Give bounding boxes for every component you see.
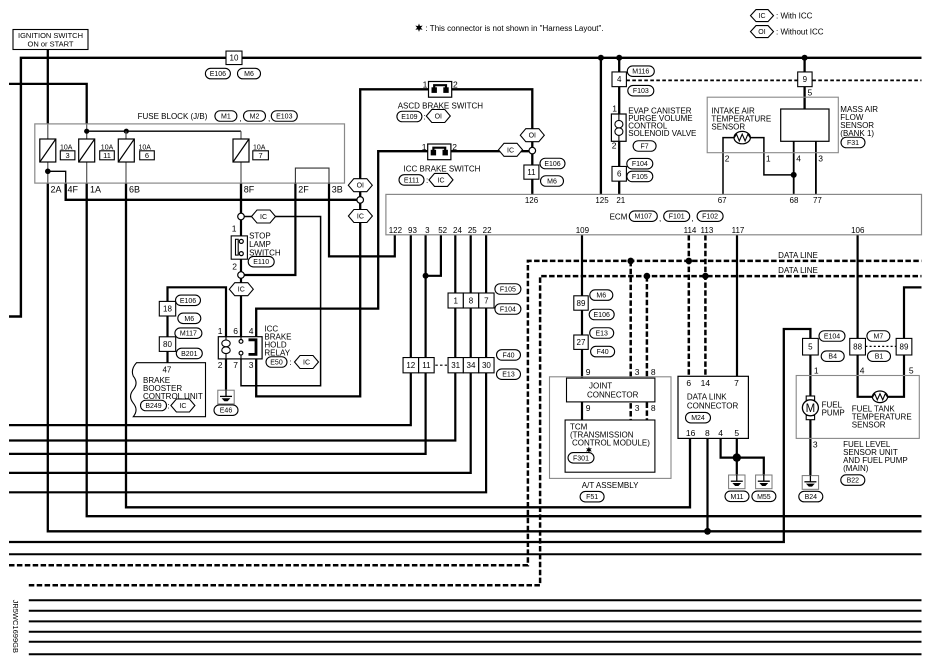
svg-text:6: 6 [233,326,238,336]
connector 9 [798,72,812,87]
fuel connector B22 [841,475,865,486]
wire fuel pump feed from left edge [9,329,810,542]
svg-text:24: 24 [453,226,462,235]
svg-text:OI: OI [435,114,442,121]
wire bottom line 4 [29,620,922,622]
svg-text:34: 34 [467,361,476,370]
svg-text:IC: IC [507,147,514,154]
svg-text:F40: F40 [597,349,609,356]
row labels F40 E13 [497,350,521,380]
svg-text:IC: IC [759,13,766,20]
svg-text:3: 3 [813,440,818,450]
svg-text:F51: F51 [586,494,598,501]
svg-text:F40: F40 [502,352,514,359]
svg-text:3: 3 [66,151,70,160]
ICC labels [399,173,453,186]
joint connector pin labels bottom [586,403,656,413]
svg-text:6: 6 [145,151,149,160]
data line 2 dashed [29,276,922,585]
fuel sensor unit box [796,376,919,439]
svg-text:A/T ASSEMBLY: A/T ASSEMBLY [582,481,639,490]
note star [415,24,603,34]
connector 6 labels [627,158,653,181]
fuel tank temp sensor name [852,405,912,430]
svg-text:SENSOR: SENSOR [852,421,886,430]
svg-text:6: 6 [686,378,691,388]
ASCD labels [397,110,450,123]
wire ECM 52 joins pin 3 wire [426,235,441,276]
svg-text:77: 77 [813,196,822,205]
fuse block 2F-3B link [295,168,329,183]
ECM box [386,194,922,234]
data line 1 dashed [9,261,922,565]
svg-text:,: , [268,114,270,123]
svg-text:IC: IC [357,214,364,221]
wire fuse 7 output 8F [240,183,242,214]
svg-text:E106: E106 [210,71,226,78]
svg-text:F7: F7 [641,144,649,151]
connector 4 [612,72,626,87]
wire ECM 93 to left edge [9,235,411,425]
svg-text:CONTROL MODULE): CONTROL MODULE) [572,439,650,448]
wire stop lamp switch pin 2 to junction [240,253,242,272]
svg-text:E104: E104 [824,334,840,341]
row labels F105 F104 [495,284,521,315]
svg-text:CONNECTOR: CONNECTOR [587,390,639,399]
svg-text:M55: M55 [757,494,771,501]
svg-text:106: 106 [851,226,865,235]
wire relay pin 2 to ground E46 [225,359,227,390]
wire fuse 3 output 2A [48,183,922,531]
svg-text:6B: 6B [129,184,140,194]
ECM name [610,211,724,223]
wire ICC brake switch pin 2 [451,150,529,152]
wire bottom line 5 [29,631,922,633]
svg-text::: : [424,113,426,122]
svg-text:F103: F103 [633,88,649,95]
dashed wire ECM 114 to DLC 6 [688,235,691,376]
svg-text:OI: OI [529,133,536,140]
svg-text::: : [426,176,428,185]
ground B24 [802,476,818,490]
TCM box [565,420,655,472]
svg-text:7: 7 [484,296,489,305]
fuel pump name [822,401,845,418]
svg-text:113: 113 [701,226,714,235]
svg-text:E106: E106 [594,312,610,319]
svg-text:M107: M107 [635,214,653,221]
svg-text:B24: B24 [805,494,818,501]
fuse block label [138,111,298,123]
svg-text:47: 47 [162,365,171,374]
svg-text:E106: E106 [180,298,196,305]
svg-text:18: 18 [163,305,172,314]
junction dot MAF pin4 [791,172,797,178]
DLC connector M24 [686,412,711,423]
IC hexagon stop lamp branch [252,210,276,223]
svg-text:: Without ICC: : Without ICC [776,28,824,37]
svg-text:1: 1 [422,142,427,152]
wire bottom line to right edge 1 [9,553,922,555]
A/T connector F51 [580,491,604,502]
wire ECM 109 to TCM pin 9 [581,235,583,420]
svg-text:5: 5 [909,365,914,375]
svg-text:: With ICC: : With ICC [776,12,813,21]
wire ASCD brake switch pin 2 to connector 11 [452,89,533,147]
svg-text:DATA LINK: DATA LINK [687,393,727,402]
connector junction brake switches [529,147,536,154]
connector 89 [574,296,588,310]
svg-text:89: 89 [577,299,586,308]
svg-text:,: , [692,214,694,223]
wire fuse 6 output 6B [126,183,690,507]
svg-text:93: 93 [408,226,417,235]
DLC bottom pin labels [686,428,740,438]
MAF name [840,105,878,138]
relay connector E50 [266,356,319,369]
svg-text:2A: 2A [51,184,62,194]
svg-text:IC: IC [238,287,245,294]
svg-text:FUSE BLOCK (J/B): FUSE BLOCK (J/B) [138,112,208,121]
wire IAT sensor pin 1 to MAF ground [750,138,794,175]
svg-text:5: 5 [734,428,739,438]
ICC brake hold relay [218,326,262,370]
A/T assembly box [550,377,672,479]
svg-text:9: 9 [586,403,591,413]
MAF pin labels [725,154,823,164]
svg-text::: : [168,402,170,411]
wire bus to ECM pin 125 [600,58,602,195]
svg-text:4F: 4F [68,184,79,194]
svg-text:7: 7 [734,378,739,388]
svg-text:M6: M6 [244,71,254,78]
svg-text:8: 8 [651,367,656,377]
svg-text:8: 8 [469,296,474,305]
fuel level sensor label [843,440,908,473]
svg-text:M117: M117 [180,331,197,338]
svg-text:E50: E50 [270,360,283,367]
svg-text:52: 52 [438,226,447,235]
svg-text:E103: E103 [276,114,292,121]
svg-text:CONNECTOR: CONNECTOR [687,402,739,411]
svg-text:11: 11 [103,151,111,160]
brake booster control unit [131,363,206,417]
OI hexagon connector 11 line [520,129,544,142]
wire left feed to main bus [9,58,922,317]
dashed wire data2 to joint connector 8 [646,276,649,420]
svg-text:IC: IC [438,177,445,184]
connector 5 labels [819,331,845,362]
dashed wire ECM 113 to DLC 14 [704,235,707,376]
ECM bottom pin labels [389,226,865,235]
svg-text:M7: M7 [874,334,884,341]
svg-text:4: 4 [718,428,723,438]
ground M11 label [725,491,749,502]
svg-text:1: 1 [218,326,223,336]
svg-text:88: 88 [853,343,862,352]
svg-text:22: 22 [483,226,492,235]
svg-text:7: 7 [259,151,263,160]
OI hexagon ASCD feed [348,179,372,192]
wire DLC 8 to 2A line [706,438,708,531]
connector row 1-8-7 [448,293,494,308]
svg-text:126: 126 [525,196,539,205]
svg-text:122: 122 [389,226,403,235]
IC hexagon ICC pin2 line [499,143,523,156]
wire connector 88 to fuel box pin 4 [858,355,873,397]
svg-text:11: 11 [527,168,536,177]
connector row 12-11 [403,358,434,373]
connector 10 [226,51,242,65]
joint connector [567,378,655,402]
wire 3B to ECM pin 122 [329,183,395,256]
svg-text:M: M [806,403,816,415]
wire ICC brake switch pin 1 feed [256,151,428,337]
svg-text:B201: B201 [181,351,197,358]
wire MAF pin 3 to ECM 77 [815,141,817,194]
IC hexagon ICC feed [348,210,372,223]
svg-text:3B: 3B [332,184,343,194]
junction dot DLC ground node [733,453,741,461]
svg-text:ON or START: ON or START [28,40,74,49]
data line label 2 [778,266,818,275]
MAF inner element box [781,109,829,141]
wire 4F inside fuse block [48,171,66,183]
dashed wire data1 to joint connector 3 [629,261,632,420]
svg-text:E13: E13 [502,372,515,379]
svg-text:IC: IC [260,214,267,221]
svg-text:11: 11 [422,361,431,370]
junction dot bus to ECM 125 [598,55,604,61]
TCM star [586,446,592,453]
svg-text:E106: E106 [544,161,560,168]
svg-text:6: 6 [617,170,622,179]
svg-text:8: 8 [651,403,656,413]
wire fuse block top link [87,130,241,132]
connector 4 labels [627,66,654,96]
svg-text:8: 8 [705,428,710,438]
wire fuse 1A top stub [86,124,88,139]
wire 2F to stop lamp junction [244,183,296,275]
svg-text:3: 3 [635,403,640,413]
fuse block box [35,124,345,183]
connector row 31-34-30 [448,358,494,373]
svg-text:B1: B1 [875,354,884,361]
junction dot fuse link B [124,129,129,134]
A/T assembly label [582,481,639,490]
fuel pump motor [802,396,818,420]
wire connector 11 to ECM pin 126 [531,154,533,195]
fuse F6 [118,139,154,162]
dotted link 88-89 [865,345,896,347]
wire ECM 25 to left edge [9,235,471,473]
connector junction 4F terminal [357,197,364,204]
svg-text:80: 80 [163,340,172,349]
svg-text:E110: E110 [253,259,269,266]
wire DLC 4 to ground node [721,438,733,457]
svg-text:IC: IC [303,360,310,367]
wire bottom line 6 [29,641,922,643]
svg-text:CONTROL UNIT: CONTROL UNIT [143,392,203,401]
junction dot data2-JC8 [644,273,651,280]
wire fuse 3 bottom stub [47,162,49,183]
wire ground node to M11 [736,458,738,475]
wire connector 89 to right edge [904,287,922,338]
svg-text:JOINT: JOINT [589,381,612,390]
stop lamp switch connector E110 [248,256,274,267]
svg-text:IC: IC [179,403,186,410]
relay name [264,325,291,358]
wire fuse 11 bottom stub [86,162,88,183]
svg-text:M116: M116 [632,69,649,76]
wire fuse 11 output 1A [87,183,922,516]
junction dot DLC8-2A [704,528,711,535]
svg-text:2: 2 [612,141,617,151]
fuse block pin labels [51,184,343,194]
svg-text:117: 117 [732,226,745,235]
DLC top pin labels [686,378,739,388]
svg-text:3: 3 [818,154,823,164]
wire stop lamp switch pin 1 [240,219,242,240]
connector 89 labels [589,290,614,320]
fuse F3 [40,139,75,162]
svg-text:2: 2 [232,262,237,272]
wire IAT sensor pin 2 to ECM 67 [723,138,734,195]
svg-text:,: , [659,214,661,223]
svg-text:4: 4 [796,154,801,164]
wire ECM 22 to left edge [9,235,486,492]
svg-text:4: 4 [617,75,622,84]
B249 connector label [141,399,195,412]
wire fuse 7 bottom stub [240,162,242,183]
svg-text:1: 1 [766,154,771,164]
wire bus to mass air flow sensor pin 5 [803,58,805,109]
svg-text:E13: E13 [595,331,608,338]
IAT thermistor [734,131,750,143]
svg-text:3: 3 [635,367,640,377]
IC hexagon relay pin6 branch [229,283,253,296]
svg-text:(MAIN): (MAIN) [843,464,869,473]
wire connector 5 to fuel pump pin 1 [809,355,811,400]
svg-text:M11: M11 [730,494,743,501]
svg-text:SOLENOID VALVE: SOLENOID VALVE [628,129,696,138]
svg-text:16: 16 [686,428,696,438]
junction dot fuse link A [84,129,89,134]
svg-text:OI: OI [357,183,364,190]
svg-text:1: 1 [232,224,237,234]
svg-text:2: 2 [452,142,457,152]
svg-text:B249: B249 [145,403,161,410]
svg-text:E111: E111 [404,177,419,184]
junction dot 2A output [45,169,51,175]
svg-text:ICC BRAKE SWITCH: ICC BRAKE SWITCH [404,165,481,174]
connector 5 [803,338,819,355]
svg-text:M6: M6 [596,293,606,300]
svg-text:2F: 2F [298,184,309,194]
svg-text:25: 25 [468,226,477,235]
svg-text:B22: B22 [847,478,860,485]
wire bottom line 3 [29,610,922,612]
svg-text:10: 10 [230,54,239,63]
svg-text:4: 4 [860,365,865,375]
junction dot bus to EVAP [616,55,622,61]
IAT sensor name [711,107,771,132]
connector 27 [574,335,588,349]
wire DLC 5 to ground node [736,438,738,457]
svg-text:3: 3 [425,226,430,235]
EVAP canister purge volume control solenoid valve [611,104,626,151]
wire stop lamp junction to relay pin 6 [240,278,242,337]
svg-text:SENSOR: SENSOR [711,123,745,132]
svg-text:68: 68 [790,196,799,205]
junction dot 52-3 [423,273,429,279]
DLC name [687,393,739,411]
svg-text:(BANK 1): (BANK 1) [840,129,874,138]
svg-text:: This connector is not shown: : This connector is not shown in "Harnes… [426,24,604,33]
svg-text:JR5WC1699GB: JR5WC1699GB [11,600,20,653]
ground E46 [218,390,234,404]
connector junction 8F-stop lamp [238,213,245,220]
svg-text:B4: B4 [828,354,837,361]
svg-text:30: 30 [482,361,491,370]
svg-text:31: 31 [451,361,460,370]
svg-text:125: 125 [595,196,609,205]
wire EVAP solenoid circuit to ECM pin 21 [618,58,620,195]
svg-text:OI: OI [758,29,765,36]
wire ECM 106 to connector 88 [856,235,858,338]
svg-text::: : [290,358,292,367]
wire fuse 6B top stub [125,131,127,139]
connector 89 fuel [896,338,912,355]
wire ignition switch to fuse 3 [47,50,49,124]
ground M55 label [752,491,776,502]
data line label 1 [778,251,818,260]
fuel tank temp thermistor [872,391,887,403]
connector junction stop lamp-2F [238,272,245,279]
ground M55 [756,475,772,489]
ECM top pin labels [525,196,823,205]
svg-text:F31: F31 [847,140,859,147]
svg-text:14: 14 [701,378,711,388]
wire left feed to fuse 1A [9,84,87,124]
joint connector pin labels top [586,367,656,377]
svg-text:M6: M6 [547,179,557,186]
connector 18 labels [176,295,201,324]
fuse F11 [79,139,115,162]
svg-text:8F: 8F [244,184,255,194]
svg-text:E109: E109 [401,114,417,121]
TCM connector F301 [568,453,594,464]
EVAP valve connector F7 [633,141,656,152]
svg-text:114: 114 [684,226,697,235]
svg-text:F101: F101 [669,214,685,221]
connector 88 [850,338,866,355]
fuel box pin labels [813,365,914,449]
svg-text:1: 1 [814,365,819,375]
svg-text:9: 9 [803,75,808,84]
svg-text:2: 2 [218,360,223,370]
svg-text:M6: M6 [184,316,194,323]
svg-text:4: 4 [249,326,254,336]
svg-text:1: 1 [612,104,617,114]
svg-text:2: 2 [453,80,458,90]
wire ECM 3 to left edge [9,235,426,454]
svg-text:F102: F102 [702,214,718,221]
connector 6 [612,166,626,181]
wire bottom line 2 [29,599,922,601]
svg-text:,: , [240,114,242,123]
svg-text:1A: 1A [90,184,101,194]
